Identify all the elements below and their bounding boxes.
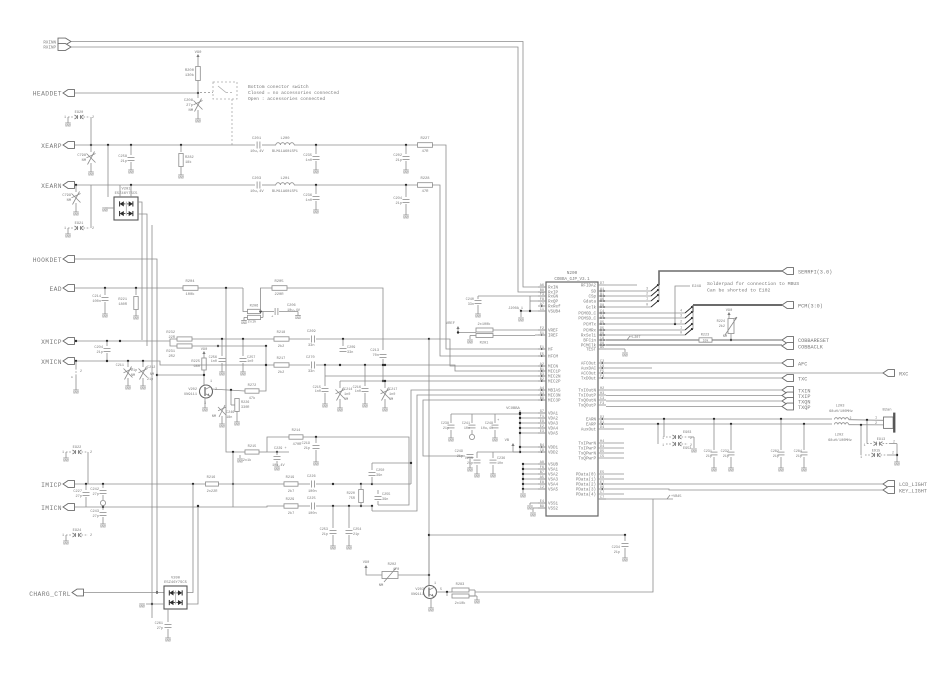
svg-text:GND: GND <box>346 548 352 552</box>
svg-text:VSA4: VSA4 <box>548 484 559 488</box>
svg-text:VDA2: VDA2 <box>548 418 559 422</box>
svg-text:VDA1: VDA1 <box>548 413 559 417</box>
svg-text:GND: GND <box>73 392 79 396</box>
svg-text:E921: E921 <box>75 222 84 226</box>
svg-text:21p: 21p <box>304 447 310 451</box>
svg-text:RxQP: RxQP <box>548 301 559 305</box>
svg-text:EAD: EAD <box>49 286 62 293</box>
svg-text:18k: 18k <box>185 160 191 165</box>
svg-text:1: 1 <box>860 455 862 459</box>
svg-text:GND: GND <box>322 406 328 410</box>
svg-text:E4: E4 <box>540 500 544 504</box>
svg-text:1: 1 <box>680 326 682 330</box>
svg-text:1n0: 1n0 <box>315 390 321 394</box>
svg-text:C282: C282 <box>771 450 779 454</box>
svg-text:GND: GND <box>88 174 94 178</box>
svg-text:1n0: 1n0 <box>211 360 217 364</box>
svg-text:10u,4V: 10u,4V <box>287 309 301 313</box>
svg-text:E2: E2 <box>540 425 544 429</box>
svg-text:R283: R283 <box>456 583 465 587</box>
svg-text:1: 1 <box>434 582 436 586</box>
svg-text:2x100k: 2x100k <box>478 322 491 327</box>
svg-text:70n: 70n <box>373 354 379 358</box>
svg-text:GND: GND <box>63 460 69 464</box>
svg-text:C240: C240 <box>466 298 474 302</box>
svg-text:R215: R215 <box>248 445 257 449</box>
svg-text:GND: GND <box>102 210 108 214</box>
svg-text:GND: GND <box>467 342 473 346</box>
svg-text:PCMRx: PCMRx <box>583 330 596 334</box>
svg-text:GND: GND <box>778 470 784 474</box>
svg-text:GND: GND <box>530 515 536 519</box>
svg-text:C209: C209 <box>347 346 355 350</box>
svg-text:47R: 47R <box>422 150 430 154</box>
svg-text:Solderpad for connection to MB: Solderpad for connection to MBUS <box>707 281 799 287</box>
svg-text:RxIN: RxIN <box>548 287 559 291</box>
svg-text:R227: R227 <box>420 137 429 141</box>
svg-text:100k: 100k <box>185 292 195 297</box>
svg-text:GND: GND <box>274 469 280 473</box>
svg-text:R214: R214 <box>292 429 301 433</box>
svg-text:F2: F2 <box>540 327 544 331</box>
svg-text:GND: GND <box>139 606 145 610</box>
svg-text:E249: E249 <box>692 285 702 289</box>
svg-text:220R: 220R <box>274 293 284 297</box>
svg-text:V203: V203 <box>415 588 424 592</box>
svg-text:1: 1 <box>210 380 212 384</box>
svg-text:C270: C270 <box>306 356 315 360</box>
svg-text:XMICN: XMICN <box>41 359 62 366</box>
svg-text:AuxOut: AuxOut <box>581 429 597 433</box>
svg-text:GND: GND <box>65 236 71 240</box>
svg-text:MIC2N: MIC2N <box>548 376 561 380</box>
svg-text:22R: 22R <box>169 336 176 340</box>
svg-text:2k7: 2k7 <box>288 489 294 494</box>
svg-text:L202: L202 <box>835 434 844 438</box>
svg-text:21p: 21p <box>706 455 712 459</box>
svg-text:10n: 10n <box>497 462 503 466</box>
svg-text:GND: GND <box>518 320 524 324</box>
svg-text:HOOKDET: HOOKDET <box>33 257 62 264</box>
svg-text:V90: V90 <box>201 348 207 352</box>
svg-text:PCMSD_C: PCMSD_C <box>578 318 596 322</box>
svg-text:2: 2 <box>646 292 648 296</box>
svg-text:0: 0 <box>646 303 648 307</box>
svg-text:H2: H2 <box>600 387 604 391</box>
svg-text:SD: SD <box>591 291 597 295</box>
svg-text:LCD_LIGHT: LCD_LIGHT <box>899 482 927 488</box>
svg-text:C241: C241 <box>462 422 470 426</box>
svg-text:C234: C234 <box>612 546 620 550</box>
svg-text:TxIPwrN: TxIPwrN <box>578 443 596 447</box>
svg-text:GND: GND <box>140 388 146 392</box>
svg-text:GND: GND <box>362 406 368 410</box>
svg-text:BLM11A601SP1: BLM11A601SP1 <box>272 150 298 154</box>
svg-text:R282: R282 <box>185 156 194 160</box>
svg-text:2: 2 <box>90 451 92 455</box>
svg-text:NM: NM <box>344 398 348 402</box>
svg-text:L201: L201 <box>280 177 290 181</box>
svg-text:PCMTx: PCMTx <box>583 324 596 328</box>
svg-text:68uH/100MHz: 68uH/100MHz <box>828 438 852 443</box>
svg-text:HF: HF <box>548 349 554 353</box>
svg-text:C3: C3 <box>600 397 604 401</box>
svg-text:C5: C5 <box>600 455 604 459</box>
svg-text:Gdata: Gdata <box>583 300 596 305</box>
svg-text:VREF: VREF <box>446 322 456 326</box>
svg-text:RXC: RXC <box>899 372 908 378</box>
svg-text:PData(3): PData(3) <box>576 488 596 493</box>
svg-text:TxQOutP: TxQOutP <box>578 405 596 409</box>
svg-text:XEARP: XEARP <box>41 143 62 150</box>
svg-text:E915: E915 <box>872 450 880 454</box>
svg-text:GND: GND <box>100 526 106 530</box>
svg-text:C7: C7 <box>600 491 604 495</box>
svg-text:C250: C250 <box>376 469 384 473</box>
svg-text:GND: GND <box>728 470 734 474</box>
svg-text:E920: E920 <box>75 111 84 115</box>
svg-text:TxQPwrP: TxQPwrP <box>578 458 596 462</box>
svg-text:NM: NM <box>389 398 393 402</box>
svg-text:GND: GND <box>313 464 319 468</box>
svg-text:GND: GND <box>428 610 434 614</box>
svg-text:PData(1): PData(1) <box>576 478 596 483</box>
svg-text:GND: GND <box>313 172 319 176</box>
svg-text:+L207: +L207 <box>630 336 641 340</box>
svg-text:1: 1 <box>875 417 877 421</box>
svg-text:GND: GND <box>295 317 301 321</box>
svg-text:C211: C211 <box>116 364 124 368</box>
svg-text:680: 680 <box>194 365 200 369</box>
svg-text:3: 3 <box>646 287 648 291</box>
svg-text:VSA2: VSA2 <box>548 474 559 478</box>
svg-text:C7: C7 <box>600 496 604 500</box>
svg-text:GND: GND <box>403 172 409 176</box>
svg-text:21p: 21p <box>457 455 463 459</box>
svg-text:27p: 27p <box>93 515 99 519</box>
svg-text:C269: C269 <box>307 330 316 334</box>
svg-text:MIC2P: MIC2P <box>548 381 561 385</box>
svg-text:1: 1 <box>64 116 66 120</box>
svg-text:PData(0): PData(0) <box>576 473 596 478</box>
svg-text:0: 0 <box>680 331 682 335</box>
svg-text:R229: R229 <box>286 498 295 502</box>
svg-text:C284: C284 <box>794 450 802 454</box>
svg-text:21p: 21p <box>353 533 359 537</box>
svg-text:C258: C258 <box>118 155 127 159</box>
svg-text:N200: N200 <box>567 271 578 276</box>
svg-text:VDD1: VDD1 <box>548 447 559 451</box>
svg-text:GND: GND <box>65 125 71 129</box>
svg-text:L203: L203 <box>836 405 845 409</box>
svg-text:GND: GND <box>202 410 208 414</box>
svg-text:Closed = no accessories connec: Closed = no accessories connected <box>248 90 339 96</box>
svg-text:GND: GND <box>133 318 139 322</box>
svg-text:EARP: EARP <box>586 424 597 428</box>
svg-text:UN9111: UN9111 <box>411 593 424 597</box>
svg-text:V200: V200 <box>171 577 181 581</box>
svg-text:PCMOD_C: PCMOD_C <box>578 313 596 317</box>
svg-text:10n: 10n <box>464 427 470 431</box>
svg-text:NM: NM <box>188 109 193 113</box>
svg-text:GND: GND <box>492 440 498 444</box>
svg-text:R231: R231 <box>166 350 175 354</box>
svg-text:RFIDA2: RFIDA2 <box>581 285 597 289</box>
svg-text:330R: 330R <box>241 406 250 410</box>
svg-text:R220: R220 <box>347 492 355 496</box>
svg-text:R272: R272 <box>248 384 257 388</box>
svg-text:IREF: IREF <box>548 335 559 339</box>
svg-text:2k2: 2k2 <box>278 344 284 349</box>
svg-text:C248: C248 <box>485 422 493 426</box>
svg-text:E8: E8 <box>540 481 544 485</box>
svg-text:47k: 47k <box>249 396 255 401</box>
svg-text:C236: C236 <box>497 457 505 461</box>
svg-text:GND: GND <box>467 470 473 474</box>
svg-text:TxDOut: TxDOut <box>581 378 597 382</box>
svg-text:100n: 100n <box>308 490 317 494</box>
svg-text:RxRef: RxRef <box>548 305 561 310</box>
svg-text:GND: GND <box>178 177 184 181</box>
svg-text:B9: B9 <box>540 505 544 509</box>
svg-text:VSA1: VSA1 <box>548 469 559 473</box>
svg-text:C799: C799 <box>62 194 71 198</box>
svg-text:21p: 21p <box>723 455 729 459</box>
svg-text:AFCOut: AFCOut <box>581 363 597 367</box>
svg-text:2: 2 <box>90 534 92 538</box>
svg-text:BFCin: BFCin <box>583 339 596 344</box>
svg-text:2x22R: 2x22R <box>207 490 219 494</box>
svg-text:PData(4): PData(4) <box>576 493 596 498</box>
svg-text:R226: R226 <box>241 401 249 405</box>
svg-text:C202: C202 <box>393 154 402 158</box>
svg-text:33n: 33n <box>468 303 474 307</box>
svg-text:1: 1 <box>662 443 664 447</box>
svg-text:VDA5: VDA5 <box>548 433 559 437</box>
svg-text:27p: 27p <box>157 627 163 631</box>
svg-text:NM: NM <box>150 373 154 377</box>
svg-text:COBBACLK: COBBACLK <box>798 345 824 351</box>
svg-text:V90: V90 <box>363 561 369 565</box>
svg-text:VSA3: VSA3 <box>548 479 559 483</box>
svg-text:C214: C214 <box>344 388 352 392</box>
svg-text:C255: C255 <box>382 493 390 497</box>
svg-text:1n0: 1n0 <box>389 393 395 397</box>
svg-text:27p: 27p <box>186 104 194 108</box>
svg-text:PCM(3:0): PCM(3:0) <box>798 304 823 310</box>
svg-text:VSS2: VSS2 <box>548 508 559 512</box>
svg-text:GND: GND <box>527 508 533 512</box>
svg-text:TxQPwrN: TxQPwrN <box>578 453 596 457</box>
svg-text:GND: GND <box>165 640 171 644</box>
svg-text:1n0: 1n0 <box>306 199 312 203</box>
svg-text:VSA5: VSA5 <box>548 489 559 493</box>
svg-text:L200: L200 <box>280 137 290 141</box>
svg-text:TXQP: TXQP <box>798 405 810 411</box>
svg-text:C232: C232 <box>721 450 729 454</box>
svg-text:GND: GND <box>520 496 526 500</box>
svg-text:18n: 18n <box>226 416 232 420</box>
svg-text:2: 2 <box>680 320 682 324</box>
svg-text:39n: 39n <box>376 474 382 478</box>
svg-text:GND: GND <box>622 560 628 564</box>
svg-text:130k: 130k <box>185 73 195 78</box>
svg-text:1: 1 <box>62 451 64 455</box>
svg-text:G7: G7 <box>540 410 544 414</box>
svg-text:GND: GND <box>801 470 807 474</box>
svg-text:F3: F3 <box>600 402 604 406</box>
svg-text:ACCOut: ACCOut <box>581 373 597 377</box>
svg-text:C231: C231 <box>704 450 712 454</box>
svg-text:HFCM: HFCM <box>548 356 559 360</box>
svg-text:39n: 39n <box>382 498 388 502</box>
svg-text:21p: 21p <box>796 455 802 459</box>
svg-text:GND: GND <box>448 440 454 444</box>
svg-text:21p: 21p <box>97 351 103 355</box>
svg-text:2R2: 2R2 <box>169 355 175 359</box>
svg-text:C226: C226 <box>307 475 316 479</box>
svg-text:GND: GND <box>330 548 336 552</box>
svg-text:GND: GND <box>237 461 243 465</box>
svg-text:V202: V202 <box>188 388 197 392</box>
svg-text:GND: GND <box>128 172 134 176</box>
svg-text:D4: D4 <box>600 426 604 430</box>
svg-text:2k7: 2k7 <box>288 511 294 516</box>
svg-text:C219: C219 <box>302 442 310 446</box>
svg-text:R217: R217 <box>277 357 286 361</box>
svg-text:AFC: AFC <box>798 362 807 368</box>
svg-text:GND: GND <box>711 470 717 474</box>
svg-text:R224: R224 <box>717 320 725 324</box>
svg-text:GND: GND <box>234 424 240 428</box>
svg-text:GND: GND <box>490 476 496 480</box>
svg-text:D5: D5 <box>600 450 604 454</box>
svg-text:21p: 21p <box>467 462 473 466</box>
svg-text:33n: 33n <box>308 344 314 348</box>
svg-text:2: 2 <box>892 451 894 455</box>
svg-text:F6: F6 <box>540 466 544 470</box>
svg-text:2x10k: 2x10k <box>455 601 466 606</box>
svg-text:C254: C254 <box>353 528 361 532</box>
svg-text:RxSel1: RxSel1 <box>581 334 597 339</box>
svg-text:180R: 180R <box>118 303 127 307</box>
svg-text:E5: E5 <box>600 471 604 475</box>
svg-text:R205: R205 <box>274 280 284 284</box>
svg-text:2: 2 <box>690 443 692 447</box>
svg-text:NM: NM <box>131 374 135 378</box>
svg-text:C236: C236 <box>303 194 312 198</box>
svg-text:R218: R218 <box>277 331 286 335</box>
svg-text:E922: E922 <box>73 446 82 450</box>
svg-text:GND: GND <box>125 388 131 392</box>
svg-text:F1: F1 <box>540 415 544 419</box>
svg-text:100n: 100n <box>308 512 317 516</box>
svg-text:MIC3P: MIC3P <box>548 400 561 404</box>
svg-text:UN9111: UN9111 <box>184 393 197 397</box>
svg-text:1n0: 1n0 <box>344 393 350 397</box>
svg-text:21p: 21p <box>147 378 153 382</box>
svg-text:GND: GND <box>691 451 697 455</box>
svg-text:VDA4: VDA4 <box>548 428 559 432</box>
svg-text:TxIPwrP: TxIPwrP <box>578 448 596 452</box>
svg-text:27p: 27p <box>93 493 99 497</box>
svg-text:+VB45: +VB45 <box>671 495 682 499</box>
svg-text:NM: NM <box>82 159 86 163</box>
svg-text:1: 1 <box>662 436 664 440</box>
svg-text:R225: R225 <box>191 360 200 364</box>
svg-text:100n: 100n <box>92 300 101 304</box>
svg-text:C212: C212 <box>147 366 155 370</box>
svg-text:NM: NM <box>723 335 727 339</box>
svg-text:A6: A6 <box>540 284 544 288</box>
svg-text:GND: GND <box>219 374 225 378</box>
svg-text:B2an: B2an <box>882 409 891 413</box>
svg-text:R201: R201 <box>480 342 489 346</box>
svg-text:NM: NM <box>379 584 384 588</box>
svg-text:TxIOutN: TxIOutN <box>578 390 596 394</box>
svg-text:33n: 33n <box>347 351 353 355</box>
svg-text:VSUB4: VSUB4 <box>548 311 561 315</box>
svg-text:F8: F8 <box>540 298 544 302</box>
svg-text:E913: E913 <box>877 438 885 442</box>
svg-text:KEY_LIGHT: KEY_LIGHT <box>899 489 927 495</box>
svg-text:A8: A8 <box>540 461 544 465</box>
svg-text:E5Z46Y7SC5: E5Z46Y7SC5 <box>115 192 139 196</box>
svg-text:C203: C203 <box>252 177 262 181</box>
svg-text:F3: F3 <box>540 293 544 297</box>
svg-text:VREF: VREF <box>548 330 559 334</box>
svg-text:VSUB: VSUB <box>548 464 559 468</box>
svg-text:10k: 10k <box>703 338 709 342</box>
svg-text:Bottom conector switch: Bottom conector switch <box>248 84 309 90</box>
svg-text:47R: 47R <box>422 190 430 194</box>
svg-text:2k2: 2k2 <box>278 370 284 375</box>
svg-text:A: A <box>71 376 73 379</box>
svg-text:E6: E6 <box>600 476 604 480</box>
svg-text:R223: R223 <box>701 334 709 338</box>
svg-text:Open : accessories connected: Open : accessories connected <box>248 96 325 102</box>
svg-text:27p: 27p <box>76 495 82 499</box>
svg-text:C213: C213 <box>370 349 379 353</box>
svg-text:V90: V90 <box>726 309 732 313</box>
svg-text:1: 1 <box>64 227 66 231</box>
svg-text:E9: E9 <box>540 420 544 424</box>
svg-text:E5Z46Y7SC5: E5Z46Y7SC5 <box>164 581 188 585</box>
svg-text:VDD2: VDD2 <box>548 452 559 456</box>
svg-text:V201: V201 <box>121 188 131 192</box>
svg-text:MIC1P: MIC1P <box>548 371 561 375</box>
svg-text:C201: C201 <box>252 137 262 141</box>
svg-text:GND: GND <box>195 121 201 125</box>
svg-text:21p: 21p <box>443 427 449 431</box>
svg-text:XMICP: XMICP <box>41 339 62 346</box>
svg-text:D7: D7 <box>600 282 604 286</box>
svg-text:E3: E3 <box>540 430 544 434</box>
svg-text:R202: R202 <box>388 563 397 567</box>
svg-text:GND: GND <box>240 374 246 378</box>
svg-text:GND: GND <box>474 476 480 480</box>
svg-text:R221: R221 <box>118 298 127 302</box>
svg-text:21p: 21p <box>131 369 137 373</box>
svg-text:VCOBBA: VCOBBA <box>506 407 520 411</box>
svg-text:IMICP: IMICP <box>41 482 62 489</box>
svg-text:C798: C798 <box>77 154 86 158</box>
svg-text:RXINP: RXINP <box>43 47 56 51</box>
svg-text:B7: B7 <box>540 471 544 475</box>
svg-text:33n: 33n <box>308 370 314 374</box>
svg-text:C235: C235 <box>303 154 312 158</box>
svg-text:PData(2): PData(2) <box>576 483 596 488</box>
